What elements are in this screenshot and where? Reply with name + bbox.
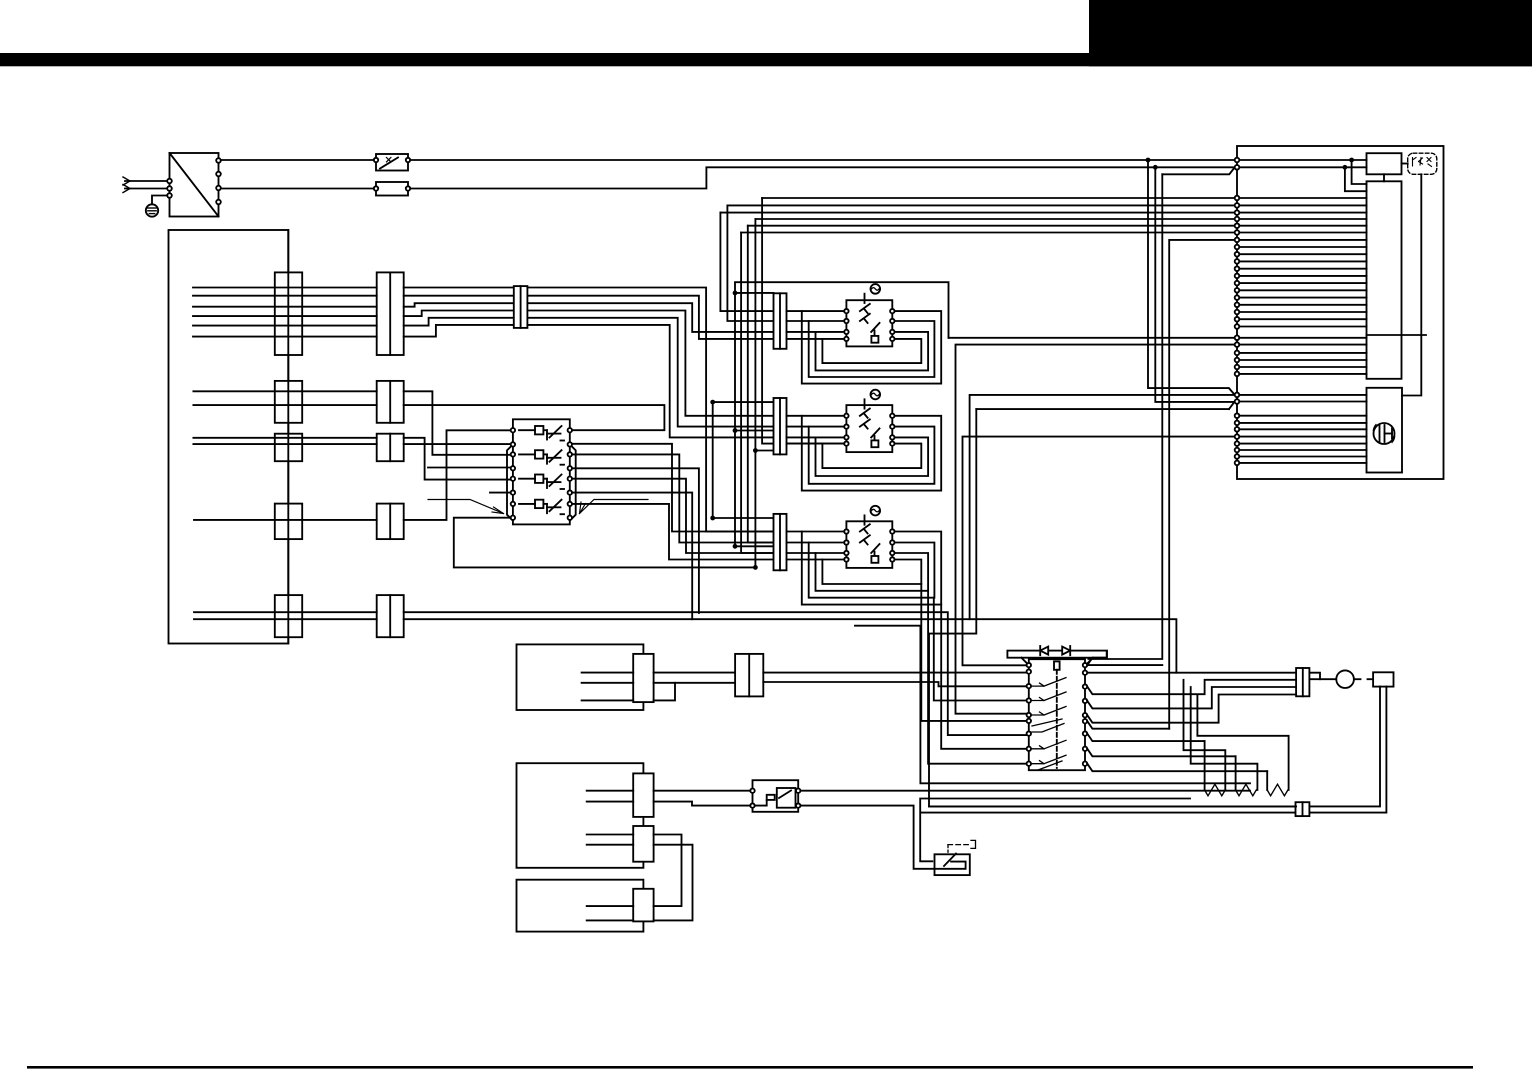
connector column1 row E xyxy=(275,595,302,637)
relay K1 terminals left xyxy=(511,428,515,520)
wire pin2 chevron from below xyxy=(1162,167,1234,174)
lower connector CN6 xyxy=(1296,802,1310,816)
bottom bus through CN6 xyxy=(929,805,1296,807)
connector column1 row A xyxy=(275,272,302,355)
contactor 52C2 xyxy=(844,390,894,452)
wire dashed box down to fan unit xyxy=(1402,174,1421,395)
header thin bar xyxy=(0,53,1532,66)
bus verticals from control wires xyxy=(720,198,844,567)
connector column2 row E xyxy=(377,595,404,637)
junction dot rail2 inside box xyxy=(1343,165,1348,170)
transformer T1 xyxy=(167,153,221,217)
B2 connector A xyxy=(633,773,653,817)
relay RY1 xyxy=(750,780,800,812)
row E bus wires xyxy=(194,612,1176,735)
bus vertical with taps L-mid xyxy=(710,400,773,521)
wire t1 row to x1162 xyxy=(1087,664,1162,666)
52C2 output loop r4 xyxy=(822,444,921,469)
crankcase heater box xyxy=(1373,672,1393,686)
contactor 52C1 connector xyxy=(774,293,787,349)
row A wires (6) xyxy=(193,288,377,337)
B1 output wires to CN2 xyxy=(654,673,736,701)
52C1 output loop r3 xyxy=(816,332,929,371)
rotary switch body xyxy=(1029,659,1085,770)
relay block K1 xyxy=(507,419,576,524)
box B2 (control unit) xyxy=(517,763,644,868)
fuse F1 xyxy=(374,182,410,196)
relay K1 unit1 xyxy=(519,426,564,441)
pin rail2 xyxy=(1235,165,1240,170)
wire lamp to box (with break) xyxy=(1354,678,1373,680)
CN2 to rotary switch wires xyxy=(763,673,1026,687)
rotary switch assembly SW2 plate xyxy=(1007,651,1107,666)
wire rail2 down to pin xyxy=(1155,167,1234,402)
fan unit box M1 xyxy=(1367,388,1403,473)
pin rail1 xyxy=(1235,158,1240,163)
connector column2 row B xyxy=(377,381,404,423)
wire t8 resistor feed xyxy=(1087,749,1235,757)
wire F1 jog up xyxy=(410,167,1234,188)
connector column1 row B xyxy=(275,381,302,423)
B2 connector B xyxy=(633,826,653,862)
wire t7 resistor feed xyxy=(1087,734,1204,742)
wire rail1 pin to U1 xyxy=(1239,159,1366,161)
thermal protector TH xyxy=(935,854,970,876)
wire t9 resistor feed xyxy=(1087,764,1267,772)
row B wires xyxy=(193,391,664,455)
relay K1 unit4 xyxy=(519,500,564,515)
wire U1 to dashed box xyxy=(1402,163,1408,165)
relay K1 terminals right xyxy=(568,428,572,520)
wire T1 to F1 xyxy=(221,188,374,190)
wire rail2 tap to U2 xyxy=(1345,167,1367,191)
resistor R3 xyxy=(1197,695,1288,796)
top rail to contactors xyxy=(735,282,949,546)
52C1 output loop r2 xyxy=(809,321,935,377)
junction on rail 2 xyxy=(1153,165,1158,170)
PCB divider xyxy=(1367,334,1427,336)
fan motor symbol xyxy=(1373,423,1394,444)
left main box (power unit) xyxy=(169,230,289,644)
52C1 output loop r4 xyxy=(822,339,921,363)
wire vertical x1162 to switch plate xyxy=(1088,174,1162,659)
connector box pins upper group xyxy=(1235,196,1367,243)
remote control dashed box xyxy=(1408,153,1437,174)
box B3 (display unit) xyxy=(517,880,644,932)
switch terminals right xyxy=(1083,663,1087,766)
row D wire to relay xyxy=(194,430,511,520)
wire t5 staircase xyxy=(1087,695,1296,723)
bus vertical taps on x735 xyxy=(733,291,774,549)
relay K1 annotation arrow right xyxy=(580,500,649,514)
relay K1 right wires to bus xyxy=(572,444,773,619)
52C2 CN to block wires xyxy=(787,416,845,444)
relay K1 unit3 xyxy=(519,475,564,490)
wire from contactor area down to bottom bus xyxy=(855,626,1250,784)
contactor 52C2 connector xyxy=(774,398,787,454)
B1 internal wires xyxy=(582,673,634,701)
resistor R1 xyxy=(1184,680,1226,796)
wire pin 394.9 chevron to bottom bus xyxy=(970,395,1235,619)
wire t6 from remote pin xyxy=(1087,721,1169,729)
big box right edge through connectors xyxy=(287,230,289,644)
AC input arrows xyxy=(123,177,167,193)
lamp connector CN5 xyxy=(1296,668,1309,696)
relay K1 annotation arrow left xyxy=(428,500,504,514)
wire CN5 top jog xyxy=(1309,673,1320,680)
52C3 output loop r2 xyxy=(809,543,935,598)
contactor 52C3 xyxy=(844,506,894,568)
52C2 output loop r1 xyxy=(802,416,941,491)
wire t4 staircase xyxy=(1087,687,1296,708)
switch S1 (interlock) xyxy=(374,154,410,171)
wire rail1 down to chevron pin xyxy=(1148,160,1235,395)
switch fuse element xyxy=(1054,661,1060,669)
bus vertical tap on x755 xyxy=(753,448,774,453)
switch gang dashed line xyxy=(1056,670,1058,768)
relay K1 frame wire to block3 xyxy=(454,518,755,568)
wire S1 to connector pin (top rail) xyxy=(410,159,1234,161)
B1 connector xyxy=(633,654,653,702)
B2-B3 link wires xyxy=(654,835,693,921)
heater return wires xyxy=(1309,687,1386,813)
wire pin 240 to lamp circuit xyxy=(1169,240,1235,729)
row C wires xyxy=(193,438,510,480)
52C3 CN to block wires xyxy=(787,532,845,560)
52C3 output loop r3 xyxy=(816,553,929,591)
contactor 52C1 xyxy=(844,284,894,346)
wire t2 to lamp CN xyxy=(1087,672,1296,674)
wire rail2 pin to U1 xyxy=(1239,166,1366,168)
switch plate right hook xyxy=(1087,651,1106,665)
switch contacts xyxy=(1032,678,1066,770)
52C2 output loop r3 xyxy=(816,437,929,476)
bottom rule xyxy=(27,1066,1473,1069)
wire U1 bottom to U2 xyxy=(1383,174,1385,181)
B2 connector B wires xyxy=(587,835,634,845)
connector column2 row D xyxy=(377,504,404,539)
B3 wires xyxy=(587,906,634,920)
52C3 output loop r1 xyxy=(802,532,941,605)
connector column1 row C xyxy=(275,434,302,462)
header black block xyxy=(1089,0,1532,66)
relay K1 left terminal stubs xyxy=(428,468,511,493)
wire t3 to lamp CN lower xyxy=(1087,680,1296,694)
switch terminals left xyxy=(1027,663,1031,766)
connector box lower pins to fan unit xyxy=(1235,393,1367,466)
wire rail1 tap to U2 xyxy=(1352,160,1367,184)
B2 connector A wires xyxy=(587,791,634,802)
junction dot rail1 inside box xyxy=(1349,158,1354,163)
B3 connector xyxy=(633,889,653,922)
wire pin 409.1 chevron to bottom bus xyxy=(1229,402,1235,410)
52C1 output loop r1 xyxy=(802,311,941,384)
wire T1 to S1 xyxy=(221,159,374,161)
connector column2 row A xyxy=(377,272,404,355)
52C3 output loop r4 xyxy=(822,560,921,585)
B2 to RY1 wires xyxy=(654,791,751,806)
switch left wires from 52C3 loop verticals xyxy=(921,584,1026,764)
junction frame-vertical xyxy=(753,565,758,570)
control board outer box CN xyxy=(1237,146,1444,479)
wire rail to pin 337.8 xyxy=(949,337,1235,339)
TH inlet wire from bus xyxy=(920,799,1190,862)
row A wire steps to CN3 xyxy=(404,288,514,337)
wire pin 344.6 down to switch xyxy=(956,345,1235,714)
ground xyxy=(146,196,167,217)
TH dashed sensing link xyxy=(948,840,976,852)
power PCB small box U1 xyxy=(1367,153,1402,174)
junction on rail 1 xyxy=(1146,158,1151,163)
box B1 (sensor unit) xyxy=(517,644,644,710)
52C2 output loop r2 xyxy=(809,427,935,484)
lamp PL xyxy=(1336,670,1354,688)
resistor R2 xyxy=(1191,687,1258,796)
RY1 output to bottom bus xyxy=(800,791,1296,869)
relay K1 unit2 xyxy=(519,450,564,465)
diode D1 xyxy=(1040,646,1048,655)
row A wires after CN3 xyxy=(527,288,773,532)
wire CN5 to lamp xyxy=(1309,678,1336,680)
connector CN2 xyxy=(735,654,763,697)
main PCB tall box U2 xyxy=(1367,181,1402,378)
wire pin 436.6 down to switch t1 xyxy=(963,437,1235,666)
connector CN3 xyxy=(514,286,528,328)
connector column1 row D xyxy=(275,504,302,539)
diode D2 xyxy=(1062,646,1070,655)
connector column2 row C xyxy=(377,434,404,462)
52C1 CN to block wires xyxy=(787,311,845,339)
connector box spare pins xyxy=(1235,245,1367,377)
contactor 52C3 connector xyxy=(774,514,787,570)
six control wires to pins xyxy=(720,198,1234,233)
